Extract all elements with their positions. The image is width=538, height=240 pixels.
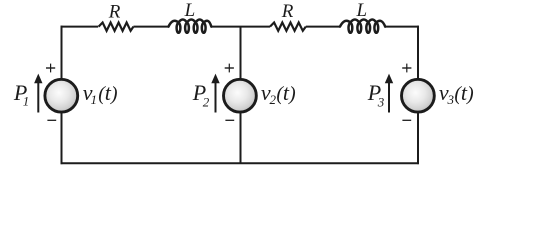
wire middle vertical top — [240, 27, 242, 79]
plus sign of v1 — [46, 67, 55, 69]
wire right vertical top — [417, 26, 419, 79]
svg-text:2: 2 — [203, 94, 210, 109]
arrow P3 — [385, 74, 393, 113]
svg-text:L: L — [356, 0, 368, 21]
wire top segment L2 to node3 corner — [385, 26, 419, 28]
arrow P1 — [34, 74, 42, 113]
svg-text:): ) — [466, 83, 474, 105]
minus sign of v3 — [402, 119, 411, 121]
svg-text:L: L — [184, 0, 196, 21]
plus sign of v2 — [225, 67, 234, 69]
wire bottom — [61, 162, 419, 164]
wire top segment R1 to L1 — [133, 26, 168, 28]
wire top segment L1 through node2 to R2 — [211, 26, 270, 28]
plus sign of v3 — [402, 67, 411, 69]
resistor R2 — [270, 23, 306, 31]
wire left vertical bottom — [61, 113, 63, 164]
svg-text:R: R — [108, 2, 121, 23]
wire top segment node1 to R1 — [61, 26, 99, 28]
wire middle vertical bottom — [240, 113, 242, 163]
inductor L2 — [340, 19, 385, 32]
svg-text:): ) — [288, 83, 296, 105]
wire left vertical top — [61, 26, 63, 79]
resistor R1 — [99, 23, 134, 31]
svg-text:3: 3 — [377, 94, 385, 109]
svg-text:1: 1 — [91, 92, 98, 107]
inductor L1 — [169, 19, 212, 32]
wire right vertical bottom — [417, 113, 419, 164]
svg-text:3: 3 — [447, 92, 455, 107]
source v1 circle U1 — [45, 79, 78, 112]
source v2 circle U2 — [224, 79, 257, 112]
source v3 circle U3 — [402, 79, 435, 112]
svg-text:R: R — [281, 1, 294, 22]
minus sign of v1 — [47, 119, 56, 121]
wire top segment R2 to L2 — [306, 26, 340, 28]
svg-text:1: 1 — [23, 94, 30, 109]
svg-text:): ) — [110, 83, 118, 105]
arrow P2 — [211, 74, 219, 113]
minus sign of v2 — [225, 119, 234, 121]
